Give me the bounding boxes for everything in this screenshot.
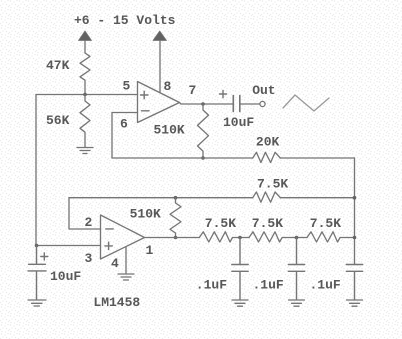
node rail row2 [353,196,357,200]
wire pin3 net [36,245,101,247]
triangle wave symbol [283,95,329,111]
svg-text:510K: 510K [154,123,185,138]
capacitor C3 .1uF [232,238,248,300]
node B [238,236,242,240]
node C [295,236,299,240]
svg-text:Out: Out [252,83,275,98]
capacitor C1 10uF output [233,96,240,112]
svg-text:7.5K: 7.5K [310,216,341,231]
wire row2 pin2 net [69,197,253,199]
wire output U1a [180,103,234,105]
power arrow pin 8 [153,31,167,41]
wire pin6 feedback left [112,113,138,159]
right rail vertical [354,158,356,265]
svg-text:1: 1 [146,243,154,258]
ground under 10uF [28,300,46,306]
wire 7.5K to right rail [280,197,354,199]
capacitor C5 .1uF [346,265,362,300]
plus sign U1b [105,242,112,249]
capacitor C2 10uF input [28,246,46,300]
svg-text:47K: 47K [46,58,70,73]
plus sign output cap [220,91,227,98]
ground under C5 [347,300,363,306]
wire to right rail [340,237,354,239]
resistor R3 510K [198,104,209,158]
ground under C3 [232,300,248,306]
svg-text:2: 2 [85,215,93,230]
ground under pin4 [118,274,134,280]
svg-text:10uF: 10uF [223,115,254,130]
wire pin2 corner [69,198,101,229]
svg-text:LM1458: LM1458 [93,295,140,310]
svg-text:56K: 56K [46,113,70,128]
resistor R1 47K [80,53,90,95]
resistor R7 7.5K series 1 [199,232,232,242]
resistor R9 7.5K series 3 [307,232,340,242]
svg-text:.1uF: .1uF [253,278,284,293]
svg-text:.1uF: .1uF [196,278,227,293]
svg-text:20K: 20K [256,135,280,150]
capacitor C4 .1uF [288,238,304,300]
svg-text:7.5K: 7.5K [205,216,236,231]
svg-text:7: 7 [189,83,197,98]
svg-text:4: 4 [111,256,119,271]
node output U1a [201,102,205,106]
ground under C4 [289,300,305,306]
power arrow to 47K [84,41,86,54]
wire cap to out terminal [240,103,260,105]
node rail output row [353,236,357,240]
resistor R5 7.5K upper [253,192,281,202]
ground under 56K [77,148,93,154]
svg-text:10uF: 10uF [50,269,81,284]
op-amp U1a triangle [138,82,180,123]
wire pin5 net [36,94,138,96]
wire to node B [233,237,250,239]
minus sign U1b [106,228,113,230]
svg-text:.1uF: .1uF [310,278,341,293]
resistor R6 510K lower [170,198,181,238]
op-amp U1b triangle [101,215,145,259]
plus sign 10uF input cap [41,253,48,260]
out terminal circle [260,101,265,106]
svg-text:7.5K: 7.5K [252,216,283,231]
node 510K bottom [201,156,205,160]
wire feedback bottom row [112,157,253,159]
svg-text:510K: 510K [130,207,161,222]
resistor R4 20K [253,152,281,162]
node 510K2 bottom [174,236,178,240]
svg-text:8: 8 [164,79,172,94]
pin 8 lead [159,41,161,93]
resistor R8 7.5K series 2 [249,232,282,242]
svg-text:3: 3 [85,251,93,266]
minus sign U1a [142,110,150,112]
resistor R2 56K [80,95,90,148]
wire to node C [282,237,307,239]
svg-text:+6 - 15 Volts: +6 - 15 Volts [74,13,176,28]
wire output U1b [145,237,200,239]
svg-text:5: 5 [123,79,131,94]
node pin3/cap [35,244,39,248]
svg-text:7.5K: 7.5K [257,177,288,192]
node junction 47K/56K [83,93,87,97]
wire 20K to right rail [280,157,354,159]
svg-text:6: 6 [120,117,128,132]
pin 4 ground lead [125,247,127,274]
wire left vertical [35,95,37,246]
plus sign U1a [141,91,149,98]
node 510K2 top [174,196,178,200]
